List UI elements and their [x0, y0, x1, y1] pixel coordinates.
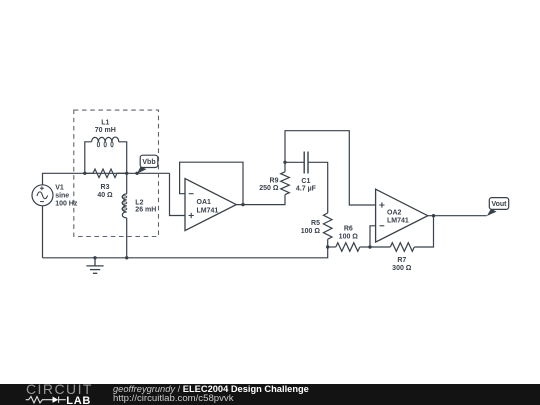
junction: L1/R3/L2 right node	[125, 172, 128, 175]
wire: R7 right up to OA2 output	[414, 216, 433, 247]
wire: R9/C1 node up and over to OA2 non-inverting input	[285, 131, 376, 205]
footer text	[113, 385, 309, 394]
capacitor C1	[304, 152, 308, 174]
wire: R9 top lead to node	[284, 162, 286, 172]
inductor L2	[122, 194, 127, 218]
ground	[86, 258, 103, 274]
junction: OA1 output node	[241, 203, 244, 206]
svg-text:LM741: LM741	[387, 218, 409, 225]
wire: L1 left leg	[85, 142, 92, 174]
wire: C1 right plate to R5 top	[308, 162, 328, 213]
resistor R9	[281, 172, 290, 195]
junction: ground node	[93, 256, 96, 259]
svg-text:26 mH: 26 mH	[135, 206, 156, 213]
junction: Vbb tap	[135, 172, 138, 175]
svg-text:R7: R7	[397, 257, 406, 264]
svg-text:sine: sine	[55, 192, 69, 199]
wire: R5 bottom lead	[327, 239, 329, 247]
wire: V1 top to main node row	[43, 173, 170, 184]
svg-text:R5: R5	[311, 220, 320, 227]
CircuitLab logo	[0, 383, 110, 405]
inductor L1	[92, 137, 119, 147]
svg-text:Vbb: Vbb	[142, 159, 155, 166]
wire: OA1 feedback loop	[180, 162, 243, 204]
svg-text:V1: V1	[55, 185, 64, 192]
resistor R5	[323, 213, 332, 239]
node Vout flag	[487, 198, 509, 216]
resistor R3	[85, 169, 127, 178]
wire: L2 top lead	[126, 173, 128, 194]
op-amp OA2	[376, 189, 428, 242]
svg-text:70 mH: 70 mH	[95, 127, 116, 134]
svg-text:OA1: OA1	[197, 199, 212, 206]
wire: OA2 output to Vout	[428, 215, 487, 217]
wire: L1 right leg	[119, 142, 127, 174]
svg-text:Vout: Vout	[491, 201, 507, 208]
svg-text:L2: L2	[135, 199, 143, 206]
svg-text:100 Ω: 100 Ω	[301, 228, 321, 235]
svg-text:4.7 µF: 4.7 µF	[296, 186, 317, 193]
wire: node up to OA2 inverting input	[370, 226, 376, 247]
wire: node to R7 left	[370, 246, 390, 248]
wire: L2 bottom lead	[126, 218, 128, 258]
wire: node to C1 left plate	[285, 161, 304, 163]
junction: L2 bottom node	[125, 256, 128, 259]
svg-text:300 Ω: 300 Ω	[392, 265, 412, 272]
dashed subcircuit box	[74, 110, 159, 236]
svg-text:250 Ω: 250 Ω	[259, 185, 279, 192]
wire: R6 right to node	[360, 246, 370, 248]
svg-text:LAB: LAB	[66, 395, 91, 405]
svg-text:L1: L1	[101, 119, 109, 126]
resistor R6	[336, 243, 360, 252]
svg-text:OA2: OA2	[387, 210, 402, 217]
junction: OA2 output node	[432, 214, 435, 217]
svg-text:R9: R9	[270, 177, 279, 184]
wire: main node down to OA1 non-inverting input	[170, 173, 186, 215]
wire: node to R6 left	[328, 246, 336, 248]
svg-text:R3: R3	[101, 184, 110, 191]
voltage source V1	[32, 185, 53, 206]
op-amp OA1	[185, 179, 236, 231]
junction: R5/R6 node	[326, 245, 329, 248]
junction: R9/C1 node	[283, 161, 286, 164]
svg-text:LM741: LM741	[197, 207, 219, 214]
wire: V1 bottom to ground rail	[42, 206, 44, 258]
svg-text:100 Ω: 100 Ω	[339, 234, 359, 241]
wire: ground rail	[43, 247, 328, 258]
svg-text:40 Ω: 40 Ω	[97, 192, 113, 199]
wire: OA1 output to R9 bottom	[236, 195, 285, 205]
svg-text:100 Hz: 100 Hz	[55, 200, 78, 207]
junction: R6/R7/OA2 inverting node	[368, 245, 371, 248]
svg-text:R6: R6	[344, 226, 353, 233]
junction: L1/R3 left node	[83, 172, 86, 175]
resistor R7	[390, 243, 414, 252]
footer bar	[0, 384, 540, 405]
svg-text:C1: C1	[301, 178, 310, 185]
node Vbb flag	[137, 155, 158, 173]
